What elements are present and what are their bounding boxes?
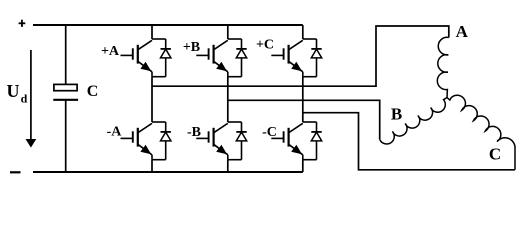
wire: negative DC rail xyxy=(33,171,303,173)
wire: positive DC rail xyxy=(33,24,303,26)
svg-text:B: B xyxy=(391,105,402,124)
IGBT -C xyxy=(271,122,316,160)
freewheel diode of +B xyxy=(236,39,246,77)
IGBT +C xyxy=(271,39,316,77)
wire: leg 2 midpoint vertical xyxy=(227,77,229,122)
capacitor C xyxy=(65,25,67,84)
freewheel diode of +A xyxy=(161,39,171,77)
svg-text:U: U xyxy=(7,81,20,101)
wire: leg 1 feed from +rail xyxy=(151,25,153,39)
svg-text:+B: +B xyxy=(183,40,200,55)
svg-text:A: A xyxy=(456,22,469,41)
wire: leg 3 to -rail xyxy=(302,160,304,172)
svg-text:+C: +C xyxy=(256,37,274,52)
wire: leg 2 feed from +rail xyxy=(227,25,229,39)
wire: phase C bus xyxy=(303,113,515,170)
wire: leg 1 midpoint vertical xyxy=(151,77,153,122)
wire: leg 2 to -rail xyxy=(227,160,229,172)
winding B (phase B coil) xyxy=(380,98,447,144)
winding A (phase A coil) xyxy=(437,37,448,97)
svg-text:C: C xyxy=(489,144,501,163)
IGBT -B xyxy=(196,122,241,160)
wire: phase B bus xyxy=(228,100,380,139)
wire: phase A bus xyxy=(152,26,449,86)
svg-text:+A: +A xyxy=(101,44,120,59)
winding C (phase C coil) xyxy=(447,95,515,170)
svg-text:d: d xyxy=(21,92,28,106)
wire: leg 3 feed from +rail xyxy=(302,25,304,39)
wire: leg 3 midpoint vertical xyxy=(302,77,304,122)
plus terminal label xyxy=(19,22,26,24)
IGBT -A xyxy=(121,122,166,160)
svg-text:C: C xyxy=(87,83,99,100)
IGBT +A xyxy=(121,39,166,77)
freewheel diode of -B xyxy=(236,122,246,160)
IGBT +B xyxy=(196,39,241,77)
freewheel diode of +C xyxy=(311,39,321,77)
wire: leg 1 to -rail xyxy=(151,160,153,172)
svg-text:-A: -A xyxy=(107,125,123,140)
voltage arrow Ud xyxy=(30,50,32,140)
freewheel diode of -A xyxy=(161,122,171,160)
freewheel diode of -C xyxy=(311,122,321,160)
minus terminal label xyxy=(10,171,21,173)
